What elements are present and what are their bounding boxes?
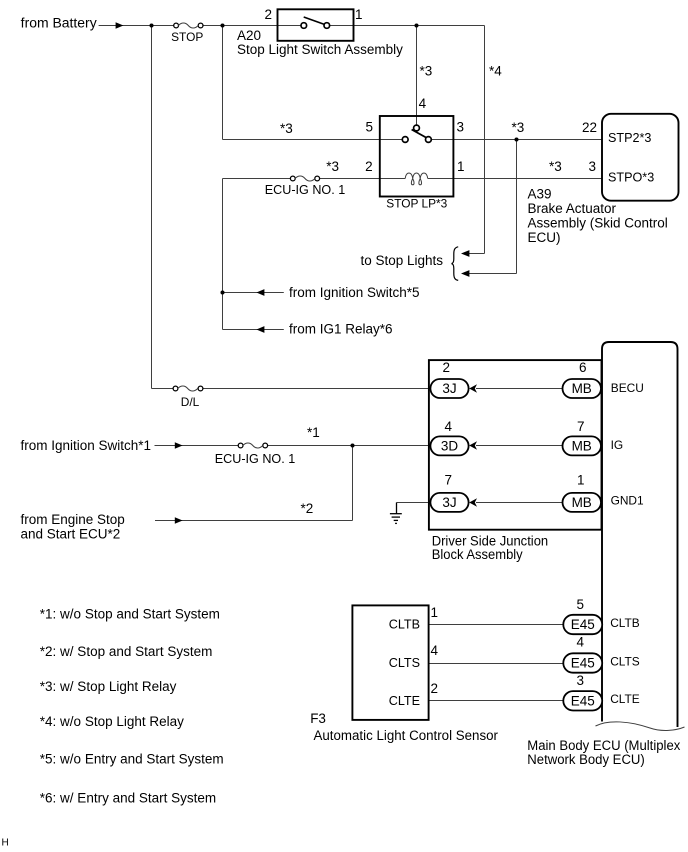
svg-text:STOP: STOP (171, 30, 203, 44)
svg-text:Main Body ECU (Multiplex: Main Body ECU (Multiplex (527, 738, 680, 753)
svg-text:*3: *3 (280, 121, 293, 136)
svg-text:*1: w/o Stop and Start System: *1: w/o Stop and Start System (40, 607, 220, 622)
svg-text:*4: w/o Stop Light Relay: *4: w/o Stop Light Relay (40, 714, 184, 729)
svg-text:3: 3 (577, 673, 585, 688)
svg-text:CLTS: CLTS (389, 656, 420, 670)
svg-text:STOP LP*3: STOP LP*3 (386, 197, 447, 211)
svg-text:*3: *3 (549, 159, 562, 174)
svg-text:1: 1 (577, 473, 585, 488)
svg-text:ECU-IG NO. 1: ECU-IG NO. 1 (265, 183, 345, 197)
svg-text:BECU: BECU (611, 381, 644, 395)
svg-text:IG: IG (611, 438, 624, 452)
svg-text:MB: MB (572, 439, 592, 454)
svg-text:from Ignition Switch*5: from Ignition Switch*5 (289, 285, 420, 300)
svg-text:Block Assembly: Block Assembly (432, 547, 523, 562)
svg-text:from IG1 Relay*6: from IG1 Relay*6 (289, 322, 393, 337)
svg-text:*5: w/o Entry and Start System: *5: w/o Entry and Start System (40, 752, 224, 767)
svg-text:CLTB: CLTB (389, 618, 420, 632)
svg-text:F3: F3 (310, 711, 326, 726)
svg-text:CLTE: CLTE (389, 694, 420, 708)
svg-text:*3: *3 (326, 159, 339, 174)
svg-text:2: 2 (264, 7, 272, 22)
svg-text:5: 5 (577, 597, 585, 612)
svg-text:1: 1 (457, 159, 465, 174)
svg-text:from Battery: from Battery (21, 15, 97, 30)
svg-text:3: 3 (588, 159, 596, 174)
svg-text:E45: E45 (571, 694, 595, 709)
svg-text:*2: w/ Stop and Start System: *2: w/ Stop and Start System (40, 644, 213, 659)
svg-text:6: 6 (579, 360, 587, 375)
svg-text:and Start ECU*2: and Start ECU*2 (21, 527, 121, 542)
svg-text:2: 2 (442, 360, 450, 375)
svg-text:CLTE: CLTE (610, 692, 640, 706)
svg-text:from Ignition Switch*1: from Ignition Switch*1 (21, 438, 152, 453)
svg-text:2: 2 (431, 681, 439, 696)
svg-text:*1: *1 (307, 425, 320, 440)
svg-text:*3: *3 (512, 120, 525, 135)
svg-text:Network Body ECU): Network Body ECU) (527, 752, 645, 767)
svg-text:1: 1 (355, 7, 363, 22)
svg-text:4: 4 (431, 643, 439, 658)
svg-text:MB: MB (572, 495, 592, 510)
svg-text:3J: 3J (442, 495, 456, 510)
svg-text:*3: *3 (420, 64, 433, 79)
svg-text:3D: 3D (441, 439, 459, 454)
svg-text:7: 7 (444, 473, 452, 488)
svg-text:Brake Actuator: Brake Actuator (528, 201, 617, 216)
svg-text:STP2*3: STP2*3 (608, 131, 651, 145)
svg-text:3: 3 (457, 120, 465, 135)
svg-text:MB: MB (572, 381, 592, 396)
svg-text:STPO*3: STPO*3 (608, 170, 654, 184)
svg-text:CLTB: CLTB (610, 616, 640, 630)
svg-text:E45: E45 (571, 617, 595, 632)
svg-text:Assembly (Skid Control: Assembly (Skid Control (528, 216, 668, 231)
svg-text:CLTS: CLTS (610, 654, 640, 668)
svg-text:D/L: D/L (181, 395, 200, 409)
svg-text:A39: A39 (528, 187, 552, 202)
svg-text:5: 5 (365, 120, 373, 135)
svg-text:4: 4 (444, 419, 452, 434)
svg-text:*4: *4 (489, 64, 502, 79)
svg-text:Stop Light Switch Assembly: Stop Light Switch Assembly (237, 42, 403, 57)
svg-text:from Engine Stop: from Engine Stop (21, 512, 125, 527)
svg-text:ECU): ECU) (528, 230, 561, 245)
svg-text:E45: E45 (571, 656, 595, 671)
svg-text:Automatic Light Control Sensor: Automatic Light Control Sensor (314, 728, 499, 743)
svg-text:GND1: GND1 (611, 494, 644, 508)
svg-text:2: 2 (365, 159, 373, 174)
svg-text:to Stop Lights: to Stop Lights (361, 253, 444, 268)
svg-text:3J: 3J (442, 381, 456, 396)
svg-text:7: 7 (577, 419, 585, 434)
svg-text:22: 22 (582, 120, 597, 135)
svg-text:1: 1 (431, 605, 439, 620)
svg-text:4: 4 (577, 635, 585, 650)
svg-text:A20: A20 (237, 28, 261, 43)
svg-text:*2: *2 (301, 501, 314, 516)
svg-text:4: 4 (419, 96, 427, 111)
svg-text:*6: w/ Entry and Start System: *6: w/ Entry and Start System (40, 791, 216, 806)
svg-text:H: H (2, 838, 9, 849)
svg-text:*3: w/ Stop Light Relay: *3: w/ Stop Light Relay (40, 679, 177, 694)
svg-text:ECU-IG NO. 1: ECU-IG NO. 1 (215, 452, 295, 466)
